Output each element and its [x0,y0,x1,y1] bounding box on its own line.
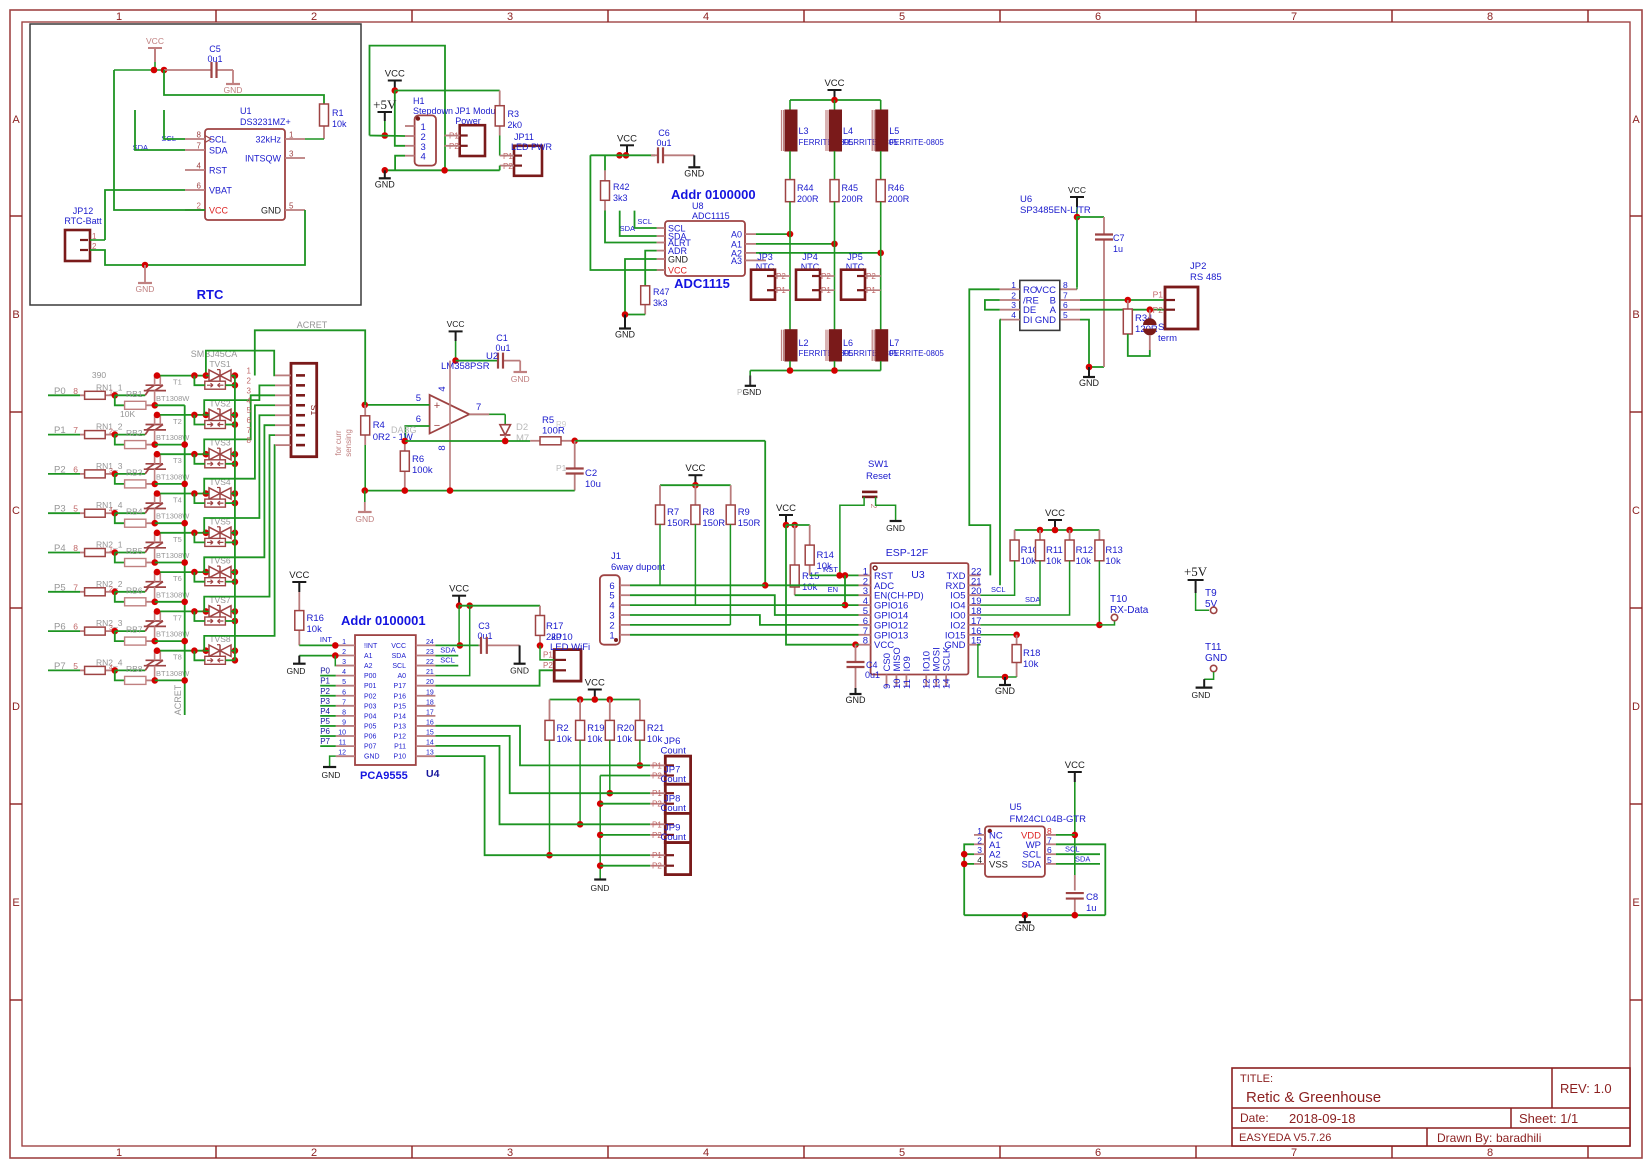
svg-text:RB6: RB6 [126,585,143,595]
svg-text:10k: 10k [1046,556,1062,567]
svg-text:3: 3 [247,386,252,395]
svg-text:P11: P11 [394,744,406,751]
svg-text:VCC: VCC [1068,185,1086,195]
wire L3 to R44 [789,151,791,180]
svg-text:E: E [12,897,19,909]
header JP6 Count [665,756,690,784]
svg-text:GND: GND [1079,378,1100,388]
connector S1 [291,363,317,456]
wire SDA stub [620,211,657,236]
op-amp U2 triangle [430,395,470,434]
svg-text:JP12: JP12 [73,206,94,216]
svg-text:6way dupont: 6way dupont [611,562,665,573]
wire L2 to GND rail [789,361,791,371]
resistor R5 100R [530,440,540,442]
power flag GND (JP counters) [594,878,606,880]
wire IO4 to R11 [980,561,1040,605]
ESP bottom pin IO10 [925,675,927,688]
svg-text:P6: P6 [320,727,330,736]
wire VCC node [114,69,164,71]
wire P12 to JP7.P1 [435,736,650,793]
wire J1.5 to GPIO14 [630,595,859,615]
wire channel6 phase to S1 pin6 [204,425,275,572]
svg-text:P12: P12 [394,734,407,741]
wire top loop [370,46,446,171]
wire input P1 [48,434,80,436]
svg-text:U4: U4 [426,768,440,780]
svg-text:4: 4 [437,386,448,391]
svg-text:P06: P06 [364,734,377,741]
svg-text:7: 7 [342,699,346,706]
svg-text:2: 2 [247,376,252,385]
svg-text:3: 3 [1011,300,1016,310]
wire U6 VCC pin8 [1060,288,1077,290]
svg-text:8: 8 [197,131,202,140]
triac T3 BT1308W [145,469,148,474]
svg-text:200R: 200R [797,194,819,204]
svg-text:SDA: SDA [1075,855,1090,864]
svg-text:5: 5 [73,661,78,671]
svg-text:6: 6 [342,689,346,696]
wire U4 GND pin12 [330,756,336,767]
svg-text:U8: U8 [692,201,704,211]
svg-text:L4: L4 [843,126,853,136]
svg-text:10k: 10k [1105,556,1121,567]
svg-text:P2: P2 [1153,305,1164,315]
svg-text:PCA9555: PCA9555 [360,770,408,782]
wire SCL stub [164,110,185,139]
svg-text:7: 7 [73,425,78,435]
svg-text:E: E [1632,897,1639,909]
resistor R21 10k [639,700,641,721]
wire P01 stub [320,685,336,687]
wire TVS7 left element link [194,611,204,621]
svg-text:7: 7 [247,426,252,435]
wire JP6.P2 to GND rail [600,775,650,777]
svg-text:GND: GND [355,514,374,524]
triac T1 BT1308W [145,391,148,396]
wire L5 to R46 [880,151,882,180]
svg-text:T8: T8 [173,653,182,662]
svg-text:10k: 10k [617,734,633,745]
wire junction to triac T6 gate [115,591,145,593]
wire A1-A2 tie to GND [299,655,336,657]
wire /RE-DE tie [985,300,1000,310]
svg-text:8: 8 [1487,1147,1493,1159]
svg-text:3: 3 [507,1147,513,1159]
svg-text:P14: P14 [394,713,407,720]
wire triac top T7 [155,610,206,612]
svg-text:GND: GND [743,387,762,397]
wire A3 stub [756,259,766,261]
wire RB3 out to cascade [155,483,185,485]
wire input P0 [48,394,80,396]
svg-text:INT: INT [320,635,333,644]
svg-text:R6: R6 [412,454,424,465]
svg-text:RB1: RB1 [126,389,143,399]
svg-text:FM24CL04B-GTR: FM24CL04B-GTR [1010,814,1087,825]
wire R1 to 32kHz pin [305,138,324,140]
wire VCC to C1 [456,360,498,362]
svg-text:VCC: VCC [1036,285,1056,296]
svg-text:0u1: 0u1 [477,631,492,641]
svg-text:R19: R19 [587,723,604,734]
svg-text:VCC: VCC [824,78,844,89]
wire R45 down column [834,202,836,330]
wire J1.3 to GPIO12 [630,615,859,625]
svg-text:SW1: SW1 [868,459,889,470]
TVS diode TVS3 [209,449,220,460]
wire P00 stub [320,675,336,677]
wire R7-R9 VCC rail [660,484,731,486]
wire P05 stub [320,725,336,727]
svg-text:LED PWR: LED PWR [511,142,553,152]
svg-text:T1: T1 [173,378,182,387]
svg-text:7: 7 [1047,835,1052,845]
svg-text:VSS: VSS [989,859,1008,870]
wire junction to triac T4 gate [115,512,145,514]
wire J1.2 to R9 [630,624,730,626]
S1 pin 7 [275,434,291,436]
resistor R14 10k [809,525,811,545]
wire P07 stub [320,745,336,747]
wire RB5 input [115,553,125,563]
svg-text:JP4: JP4 [802,252,818,262]
ferrite bead L2 FERRITE-0805 [781,330,783,361]
wire TVS6 right nodes [232,569,239,576]
svg-text:C1: C1 [496,333,508,343]
svg-text:C2: C2 [585,468,597,479]
svg-text:6: 6 [73,464,78,474]
svg-text:BT1308W: BT1308W [156,394,190,403]
svg-text:R5: R5 [542,415,554,426]
svg-text:GND: GND [1205,653,1227,664]
wire A1/A2/VSS to GND [964,844,974,915]
svg-text:A: A [1632,114,1640,126]
svg-text:RTC: RTC [197,287,224,302]
power flag GND (T11) [1203,679,1205,687]
svg-text:2018-09-18: 2018-09-18 [1289,1111,1356,1126]
test point T10 RX-Data [1099,621,1114,625]
wire channel2 phase link [204,385,275,415]
svg-text:T9: T9 [1205,588,1217,599]
svg-text:17: 17 [426,709,434,716]
wire R17 to JP10.P1 [540,646,554,660]
triac T2 BT1308W [145,430,148,435]
svg-text:GND: GND [846,695,867,705]
S1 pin 4 [275,404,291,406]
wire P13 to JP6.P1 [435,726,650,766]
resistor R47 [644,305,646,315]
svg-text:RX-Data: RX-Data [1110,605,1149,616]
svg-text:P13: P13 [394,723,407,730]
svg-text:P10: P10 [394,754,407,761]
svg-text:LM358PSR: LM358PSR [441,361,490,372]
svg-text:5: 5 [247,406,252,415]
svg-text:P17: P17 [394,683,407,690]
svg-text:T5: T5 [173,535,182,544]
svg-text:SCL: SCL [392,663,406,670]
svg-text:TITLE:: TITLE: [1240,1073,1273,1085]
solder jumper SJ1 term [1149,310,1151,320]
wire SDA stub (U4) [435,655,458,657]
wire TVS2 left element link [194,415,204,425]
wire output pin7 [469,413,505,415]
svg-text:SCL: SCL [637,217,652,226]
resistor R12 10k [1069,530,1071,540]
svg-text:+5V: +5V [1184,564,1208,579]
svg-text:SP3485EN-L/TR: SP3485EN-L/TR [1020,205,1091,216]
svg-text:JP11: JP11 [514,132,534,142]
wire VCC to R3 [395,90,500,92]
svg-text:13: 13 [426,750,434,757]
connector JP11 LED PWR [514,146,542,176]
svg-text:2: 2 [977,835,982,845]
svg-text:14: 14 [426,740,434,747]
wire TVS8 left element link [194,651,204,661]
svg-text:10k: 10k [557,734,573,745]
power flag GND (C4) [855,688,857,694]
svg-text:2: 2 [311,11,317,23]
wire IO2 to R13 and T10 [980,624,1099,626]
svg-text:GND: GND [1015,923,1036,933]
power flag GND (SW1) [890,520,902,522]
wire TVS7 right nodes [232,608,239,615]
svg-text:100R: 100R [542,426,565,437]
wire RB1 input [115,395,125,405]
svg-text:0u1: 0u1 [656,138,671,148]
wire VCC left branch to U8 VCC [590,155,663,270]
svg-text:5: 5 [1047,855,1052,865]
wire TVS right common chain [234,376,236,661]
svg-text:6: 6 [73,622,78,632]
svg-text:R21: R21 [647,723,664,734]
svg-text:VCC: VCC [617,133,637,144]
wire TVS3 left element link [194,454,204,464]
wire NTC VCC rail [790,99,881,101]
IC U4 PCA9555 [355,635,416,765]
triac T4 BT1308W [145,509,148,514]
ESP bottom pin CS0 [886,675,888,688]
svg-text:2: 2 [869,504,879,509]
svg-text:P1: P1 [320,677,330,686]
svg-text:8: 8 [437,445,448,450]
svg-text:10k: 10k [1023,659,1039,670]
svg-text:1: 1 [1011,280,1016,290]
wire A to JP2 P2 [1080,309,1165,311]
svg-text:VCC: VCC [668,266,688,276]
svg-text:200R: 200R [842,194,864,204]
svg-text:6: 6 [1095,11,1101,23]
svg-text:6: 6 [247,416,252,425]
svg-text:D: D [12,701,20,713]
svg-text:8: 8 [73,386,78,396]
wire J1.1 to GPIO13 [630,634,859,636]
resistor R6 100k [404,441,406,451]
svg-text:A: A [12,114,20,126]
svg-text:4: 4 [1011,310,1016,320]
wire TVS1 right nodes [232,372,239,379]
resistor R7 150R [659,485,661,505]
svg-text:GND: GND [375,179,396,189]
S1 pin 5 [275,414,291,416]
svg-text:0u1: 0u1 [865,670,880,680]
svg-text:P4: P4 [320,707,330,716]
power flag GND (C5) [232,70,234,84]
svg-text:TVS1: TVS1 [209,359,231,369]
wire VCC pin [114,70,205,210]
wire JP P2 common to GND [599,776,601,880]
wire TVS6 left element link [194,572,204,582]
resistor R3 [499,91,501,106]
wire C7 bottom to GND [1103,330,1105,367]
svg-text:RS 485: RS 485 [1190,272,1222,283]
svg-text:P2: P2 [320,687,330,696]
svg-text:2k0: 2k0 [508,120,523,130]
wire P11 to JP8.P1 [435,746,650,824]
svg-text:LED WiFi: LED WiFi [550,642,590,653]
svg-text:SCLK: SCLK [942,646,953,671]
resistor R1 [323,126,325,139]
svg-text:B: B [1632,309,1639,321]
svg-text:S1: S1 [309,405,319,416]
svg-text:P3: P3 [320,697,330,706]
resistor R4 0R2 [364,405,366,416]
wire P06 stub [320,735,336,737]
svg-text:Addr 0100001: Addr 0100001 [341,613,426,628]
svg-text:SCL: SCL [440,656,455,665]
diode D2 [504,414,506,424]
svg-text:GND: GND [287,666,306,676]
svg-text:7: 7 [476,402,481,413]
svg-text:U6: U6 [1020,194,1032,205]
svg-text:P1: P1 [652,761,662,770]
resistor R2 10k [549,700,551,721]
svg-text:GND: GND [684,168,705,178]
svg-text:100k: 100k [412,465,433,476]
svg-text:1u: 1u [1086,903,1097,914]
svg-text:SDA: SDA [620,224,635,233]
svg-text:Reset: Reset [866,471,891,482]
svg-text:DS3231MZ+: DS3231MZ+ [240,117,291,127]
wire triac top T3 [155,453,206,455]
svg-text:R42: R42 [613,182,630,192]
wire R9 down to J1.2 row [729,524,731,625]
wire GND rail [385,169,500,171]
svg-text:4: 4 [421,152,426,163]
svg-text:10k: 10k [332,119,347,129]
svg-text:10: 10 [338,730,346,737]
svg-text:P02: P02 [364,693,377,700]
wire junction to triac T7 gate [115,630,145,632]
svg-text:C3: C3 [478,621,490,631]
resistor R15 10k [794,525,796,565]
svg-text:GND: GND [1192,690,1211,700]
wire R34-SJ1 join [1128,334,1150,356]
svg-text:15: 15 [426,730,434,737]
svg-text:P05: P05 [364,723,377,730]
wire TVS3 right nodes [232,451,239,458]
wire L6 to GND rail [834,361,836,371]
svg-text:VCC: VCC [1065,760,1085,771]
power flag GND (opamp) [364,491,366,502]
ESP bottom pin MOSI [935,675,937,688]
wire VCC rail to R17 [459,605,540,607]
wire L4 to R45 [834,151,836,180]
svg-text:RB7: RB7 [126,625,143,635]
wire R46 down column [880,202,882,330]
wire +5V rail to H1 pin2 [370,135,406,138]
power flag GND (stepdown) [384,170,386,178]
svg-text:VCC: VCC [585,678,605,689]
ferrite bead L4 FERRITE-0805 [834,100,836,110]
svg-text:U5: U5 [1010,802,1022,813]
svg-text:GND: GND [615,330,636,340]
resistor R11 10k [1039,530,1041,540]
power flag GND (NTC) [749,371,751,376]
wire VCC down to pin24 [458,606,460,646]
svg-text:JP3: JP3 [757,252,773,262]
svg-text:SDA: SDA [440,646,455,655]
wire VCC to R1 [164,70,324,104]
svg-text:R13: R13 [1105,545,1122,556]
svg-text:P7: P7 [320,737,330,746]
wire R8 to GPIO16 row [694,524,696,605]
wire VCC row to C3 [435,644,478,646]
wire DI to RXD riser [999,320,1001,586]
svg-text:3: 3 [342,659,346,666]
svg-text:R1: R1 [332,108,344,118]
wire RB2 input [115,435,125,445]
svg-text:3k3: 3k3 [613,193,628,203]
wire R16 to INT pin [299,644,336,646]
svg-text:P15: P15 [394,703,407,710]
svg-text:JP2: JP2 [1190,261,1206,272]
svg-text:baradhili: baradhili [1496,1131,1541,1145]
svg-text:8: 8 [863,636,868,647]
title block [1232,1068,1630,1146]
wire VDD to VCC [1056,834,1075,836]
svg-text:150R: 150R [738,518,761,529]
wire VCC to C7 and U6 pin8 [1077,217,1104,287]
wire RB1 out to cascade [155,404,185,406]
wire input P5 [48,591,80,593]
wire channel3 phase to S1 pin3 [204,395,275,454]
resistor R45 200R [830,180,839,202]
svg-text:1: 1 [116,1147,122,1159]
resistor R19 10k [579,700,581,721]
RTC section box [30,24,361,305]
header JP9 Count [665,843,690,875]
TVS diode TVS8 [209,645,220,656]
wire feedback node [405,440,530,442]
wire P02 stub [320,695,336,697]
svg-text:R20: R20 [617,723,634,734]
svg-text:2: 2 [1011,291,1016,301]
wire R21 to JP6.P1 [639,740,641,765]
wire VCC to H1 pin3 [395,91,405,146]
wire RB8 input [115,670,125,680]
svg-text:FERRITE-0805: FERRITE-0805 [889,349,944,358]
svg-text:RST: RST [823,565,838,574]
wire SCL stub (U5) [1056,853,1100,855]
ferrite bead L5 FERRITE-0805 [880,100,882,110]
TVS diode TVS4 [209,488,220,499]
svg-text:C4: C4 [866,660,878,670]
wire TVS8 right nodes [232,647,239,654]
wire SCL stub (U4) [435,665,458,667]
wire EN row [795,594,859,596]
